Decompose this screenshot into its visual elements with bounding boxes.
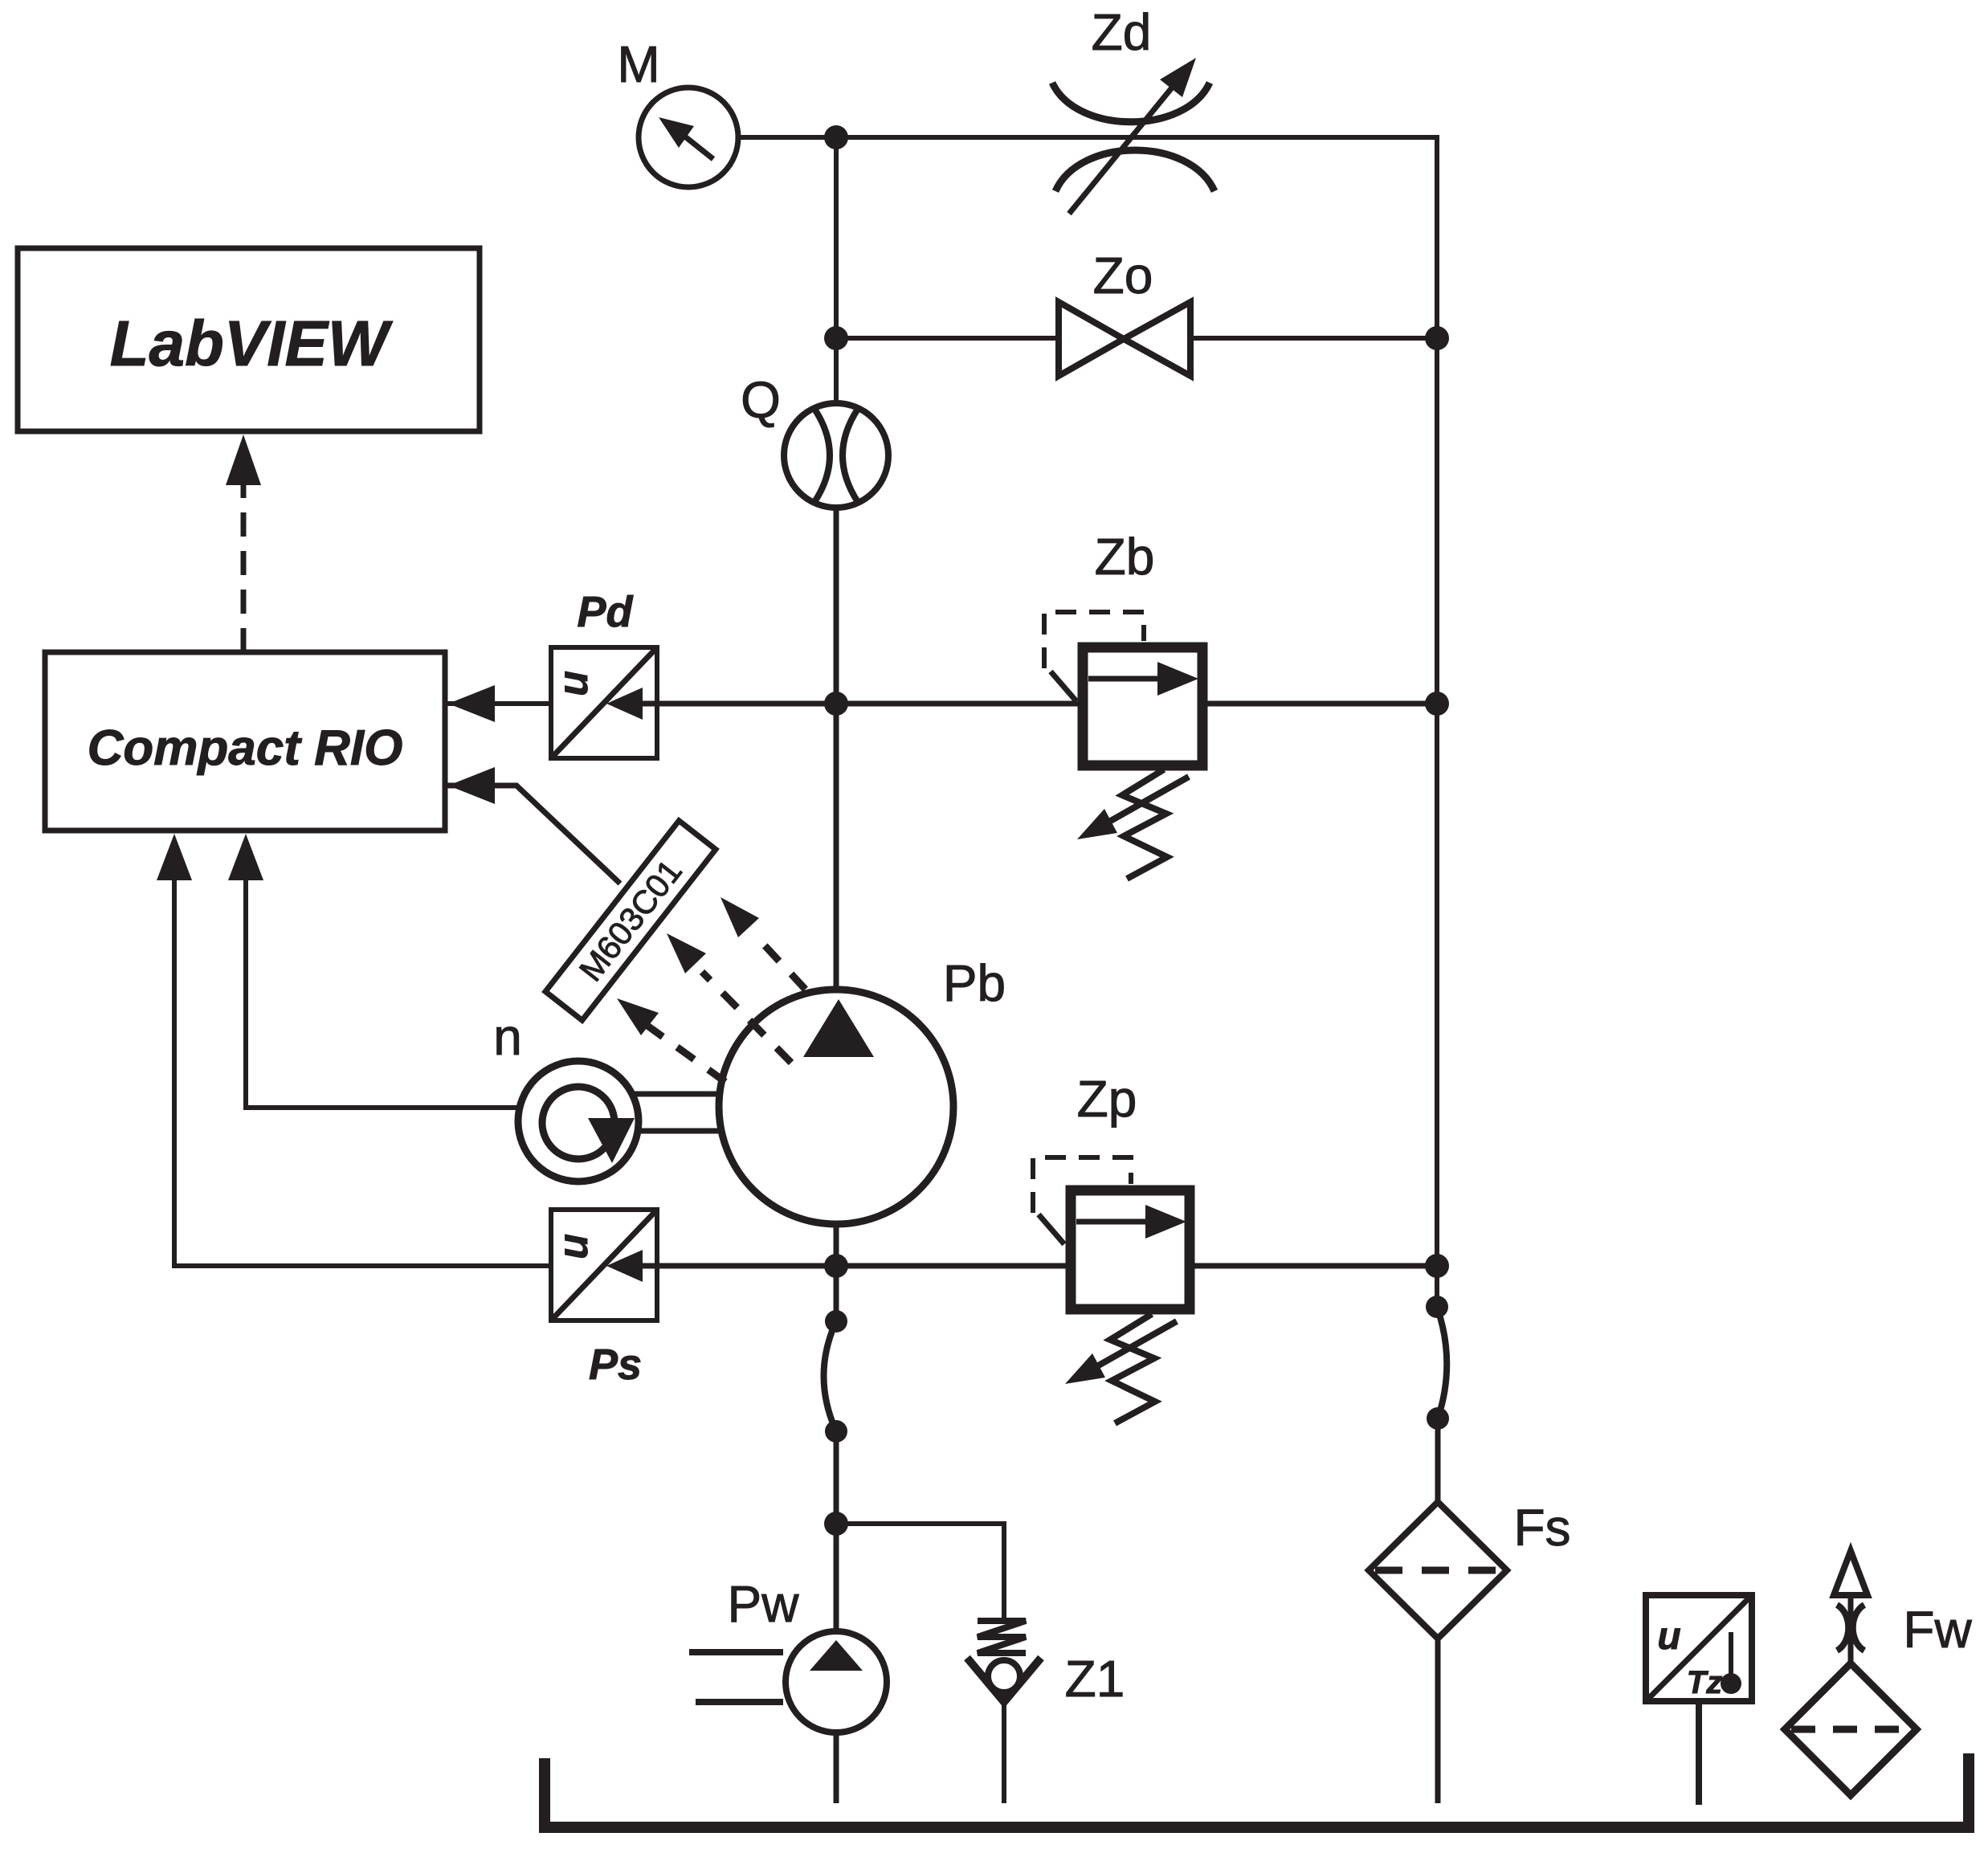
svg-text:Compact RIO: Compact RIO — [88, 720, 403, 776]
node: hose top dot (left) — [825, 1310, 847, 1333]
arrowhead: n signal into Compact RIO — [228, 834, 263, 880]
throttle valve Zd: lower arc — [1055, 150, 1214, 191]
auxiliary pump Pw: circle — [786, 1631, 887, 1733]
wire: top line from gauge M to right bus — [738, 135, 1437, 140]
throttle valve Zd: adjustment arrowhead — [1160, 58, 1196, 97]
arrowhead: Ps signal into Compact RIO — [157, 834, 192, 880]
relief valve Zb: spring adjustment arrow — [1102, 777, 1189, 826]
node: junction Zo branch / main vertical — [824, 326, 848, 350]
svg-text:M: M — [617, 35, 659, 93]
node: junction Ps line / main vertical — [824, 1254, 848, 1278]
breather Fw: filter diamond — [1785, 1663, 1917, 1795]
svg-text:Fs: Fs — [1513, 1499, 1570, 1557]
node: junction M / main vertical — [824, 125, 848, 149]
hose: flexible line (left, suction) — [824, 1321, 837, 1431]
wire: Ps riser up to Compact RIO — [172, 875, 177, 1268]
flow meter Q: right inner arc — [843, 409, 858, 502]
torque meter M603C01: link line from Compact RIO — [447, 786, 620, 884]
temperature sensor u/Tz: square — [1646, 1595, 1752, 1701]
dashed measurement arrow 3 (tail under pump) — [763, 944, 858, 1046]
node: junction Zo branch / right bus — [1425, 326, 1449, 350]
svg-text:Zp: Zp — [1077, 1070, 1137, 1128]
svg-text:Zb: Zb — [1095, 528, 1155, 586]
dashed signal arrow: Compact RIO to LabVIEW — [241, 478, 247, 652]
wire: Zo branch line — [836, 336, 1437, 341]
pressure transducer Ps: internal arrowhead — [639, 1263, 659, 1269]
shaft: double line between n sensor and pump Pb — [635, 1092, 720, 1097]
wire: hose lower segment to suction junction — [834, 1429, 839, 1633]
node: hose bottom dot (left) — [825, 1420, 847, 1443]
shut-off valve Zo: left triangle — [1059, 302, 1124, 376]
pump Pb: output triangle — [803, 999, 874, 1057]
dashed measurement arrow 1 (pump to M603C01) — [647, 1026, 725, 1082]
node: junction Pd line / main vertical — [824, 692, 848, 716]
auxiliary pump Pw: drive shaft lines — [689, 1649, 783, 1655]
dashed measurement arrow 3: arrowhead — [720, 897, 759, 937]
gauge M: needle arrowhead — [659, 117, 694, 148]
gauge M: needle — [682, 134, 713, 159]
node: hose top dot (right) — [1426, 1296, 1448, 1318]
breather Fw: dashed element — [1791, 1726, 1910, 1733]
temperature sensor u/Tz: diagonal — [1646, 1595, 1752, 1701]
gauge M: manometer circle — [639, 88, 738, 187]
relief valve Zp: dashed pilot line — [1033, 1157, 1131, 1213]
wire: Ps line middle segment — [657, 1263, 1068, 1269]
LabVIEW box — [18, 248, 480, 431]
relief valve Zp: spring — [1110, 1314, 1155, 1423]
speed sensor n: inner circle — [542, 1087, 614, 1159]
wire: right bus to filter Fs — [1435, 1416, 1441, 1504]
torque meter M603C01: rotated box with label — [545, 821, 716, 1020]
wire: Pd / Zb line middle segment — [657, 701, 1080, 707]
throttle valve Zd: adjustment arrow shaft — [1069, 83, 1176, 214]
relief valve Zb: dashed pilot line — [1044, 612, 1144, 668]
relief valve Zb: inlet tick — [1051, 671, 1076, 701]
svg-text:Tz: Tz — [1687, 1665, 1722, 1700]
relief valve Zb: body square — [1083, 647, 1202, 765]
svg-text:Ps: Ps — [589, 1341, 642, 1389]
svg-text:Pd: Pd — [577, 588, 633, 636]
svg-text:Pw: Pw — [728, 1575, 800, 1633]
check valve Z1: ball — [988, 1660, 1020, 1692]
speed sensor n: rotation arrowhead — [588, 1118, 635, 1163]
wire: filter Fs into tank — [1435, 1636, 1441, 1803]
svg-text:u: u — [1657, 1615, 1680, 1658]
svg-text:Q: Q — [741, 371, 781, 429]
hose: flexible line (right, return) — [1437, 1307, 1447, 1418]
relief valve Zp: inlet tick — [1039, 1214, 1064, 1244]
wire: n sensor line to Compact RIO riser — [246, 875, 521, 1108]
filter Fs: diamond — [1369, 1502, 1507, 1639]
pressure transducer Ps: square — [551, 1210, 657, 1320]
node: junction Zb line / right bus — [1425, 692, 1449, 716]
wire: right vertical bus — [1435, 135, 1439, 1309]
temperature sensor u/Tz: stem — [1696, 1701, 1702, 1805]
pressure transducer Ps: diagonal — [551, 1210, 657, 1320]
speed sensor n: outer circle — [518, 1061, 639, 1182]
shut-off valve Zo: right triangle — [1124, 302, 1190, 376]
flow meter Q: circle — [784, 403, 888, 508]
arrowhead: M603C01 signal into Compact RIO — [448, 767, 495, 804]
wire: Ps line left segment to Compact RIO riser — [174, 1263, 551, 1268]
svg-text:Z1: Z1 — [1065, 1650, 1125, 1708]
svg-text:Pb: Pb — [943, 954, 1006, 1012]
pump Pb: circle — [719, 990, 953, 1224]
svg-text:LabVIEW: LabVIEW — [110, 308, 394, 379]
check valve Z1: spring — [978, 1621, 1026, 1653]
node: hose bottom dot (right) — [1427, 1407, 1449, 1430]
svg-text:n: n — [493, 1008, 522, 1066]
breather Fw: top triangle — [1834, 1551, 1868, 1595]
wire: check valve Z1 tail into tank — [1002, 1699, 1006, 1803]
wire: Pd / Zb line left segment — [447, 701, 551, 706]
relief valve Zp: spring adjustment arrow — [1090, 1321, 1177, 1370]
svg-text:Zd: Zd — [1092, 3, 1152, 61]
wire: pump Pw suction into tank — [834, 1731, 839, 1803]
pressure transducer Pd: diagonal — [551, 647, 657, 758]
wire: Zp line right segment — [1192, 1263, 1437, 1269]
relief valve Zp: internal flow arrow — [1076, 1219, 1145, 1225]
breather Fw: constriction arcs — [1837, 1605, 1848, 1651]
svg-text:u: u — [550, 1234, 597, 1259]
wire: Zb line right segment — [1205, 701, 1437, 707]
pressure transducer Pd: internal arrowhead — [639, 701, 659, 707]
wire: pump Pb bottom to Ps junction and hose top — [834, 1223, 839, 1324]
svg-text:u: u — [550, 671, 597, 696]
temperature sensor u/Tz: thermometer — [1729, 1632, 1733, 1680]
Compact RIO box — [45, 652, 445, 831]
arrowhead: Pd signal into Compact RIO — [448, 685, 495, 722]
svg-text:Zo: Zo — [1093, 247, 1153, 304]
wire: branch to check valve Z1 — [836, 1524, 1004, 1621]
svg-text:Fw: Fw — [1903, 1601, 1972, 1659]
check valve Z1: seat — [967, 1658, 1041, 1702]
node: suction junction to Z1 — [824, 1512, 848, 1536]
filter Fs: dashed element — [1375, 1567, 1500, 1574]
wire: main vertical line upper (junction M to Q) — [834, 137, 839, 406]
relief valve Zp: body square — [1071, 1190, 1190, 1309]
wire: main vertical line Q to pump Pb — [834, 506, 839, 992]
breather Fw: vertical line — [1848, 1595, 1854, 1665]
tank — [545, 1753, 1969, 1827]
throttle valve Zd: upper arc — [1052, 83, 1210, 122]
pressure transducer Pd: square — [551, 647, 657, 758]
relief valve Zb: spring — [1122, 769, 1167, 879]
auxiliary pump Pw: output triangle — [810, 1640, 863, 1671]
dashed measurement arrow 2 — [702, 972, 791, 1063]
node: junction Zp line / right bus — [1425, 1254, 1449, 1278]
flow meter Q: left inner arc — [814, 409, 830, 502]
relief valve Zb: internal flow arrow — [1088, 676, 1157, 682]
